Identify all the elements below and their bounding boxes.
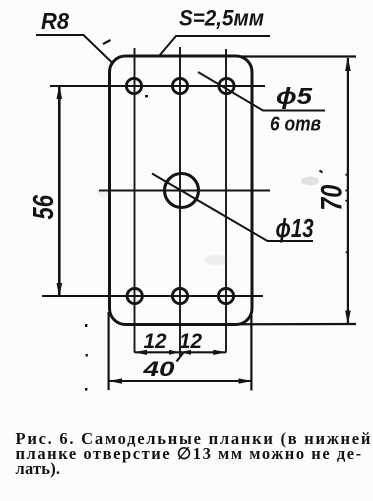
arrowhead 56 bottom: [57, 283, 63, 297]
plate outline: [110, 56, 253, 325]
svg-text:40: 40: [142, 358, 175, 381]
extension line top edge right: [240, 55, 356, 57]
big hole center: [165, 174, 199, 208]
svg-text:ϕ5: ϕ5: [276, 83, 313, 109]
stray apostrophe above 70 label: [320, 171, 323, 173]
dimension line 40: [109, 380, 253, 382]
center line column 3 vertical: [225, 49, 227, 353]
ink speck between top holes: [145, 95, 148, 97]
hole top-middle: [172, 78, 187, 93]
arrowhead 56 top: [57, 85, 63, 99]
nub on 70 dim line c: [345, 200, 347, 202]
hole bottom-middle: [172, 288, 187, 303]
svg-text:ϕ13: ϕ13: [276, 213, 314, 243]
ink speck left margin c: [85, 388, 87, 391]
center line big hole horizontal: [99, 190, 270, 192]
center line bottom hole row: [42, 295, 263, 297]
arrowhead 12 middle pair: [169, 350, 191, 355]
paper smudge left of 70: [301, 177, 319, 186]
hole bottom-right: [218, 288, 233, 303]
hole bottom-left: [127, 288, 142, 303]
extension line bottom edge right: [240, 323, 356, 325]
arrowhead 40 right: [239, 378, 253, 383]
arrowhead 40 left: [109, 378, 123, 383]
nub on 70 dim line b: [345, 190, 347, 192]
ink speck left margin a: [85, 324, 87, 327]
hole top-right: [219, 78, 234, 93]
svg-text:12: 12: [144, 330, 167, 353]
svg-text:S=2,5мм: S=2,5мм: [179, 6, 264, 31]
caption: [16, 432, 373, 476]
center line column 2 vertical: [179, 47, 181, 356]
svg-text:R8: R8: [41, 8, 69, 34]
hole top-left: [126, 78, 141, 93]
center line column 1 vertical: [134, 48, 136, 353]
paper smudge below big hole: [204, 255, 228, 265]
paper smudge near hole1 left: [97, 189, 109, 197]
dimension line 56: [58, 86, 61, 296]
center line top hole row: [50, 85, 265, 87]
svg-text:56: 56: [28, 194, 60, 219]
extension line left edge down: [107, 312, 109, 390]
svg-text:12: 12: [179, 330, 202, 353]
dimension line 70: [347, 58, 349, 324]
nub on 70 dim line a: [345, 174, 347, 176]
dimension line 12+12: [135, 351, 227, 353]
leader S=2,5mm: [159, 36, 270, 56]
leader phi13: [152, 174, 313, 242]
arrowhead 12 right: [213, 350, 226, 355]
ink speck left margin b: [86, 354, 88, 357]
svg-text:70: 70: [316, 185, 349, 211]
tick above 40 label: [177, 353, 184, 362]
arrowhead 70 top: [345, 57, 351, 71]
stray tick below R8 leader: [103, 40, 111, 44]
arrowhead 70 bottom: [345, 311, 351, 325]
leader R8: [36, 35, 114, 64]
leader phi5: [198, 72, 325, 111]
extension line right edge down: [250, 312, 252, 391]
arrowhead 12 left: [134, 350, 147, 355]
svg-text:6 отв: 6 отв: [270, 113, 321, 136]
nub on 70 dim line d: [346, 251, 348, 253]
